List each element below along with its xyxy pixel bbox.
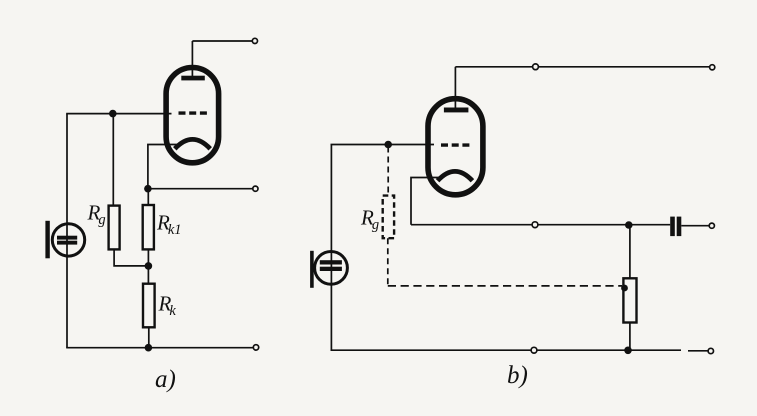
terminal: ring on middle wire (b) bbox=[532, 222, 538, 228]
node: tap dot on resistor left edge (b) bbox=[621, 285, 628, 292]
wire: anode lead vertical (b) bbox=[454, 67, 456, 108]
terminal: ring on bottom rail (b) bbox=[531, 347, 537, 353]
microphone M2 (b) bbox=[310, 251, 347, 288]
resistor R1 potentiometer (b) bbox=[623, 278, 636, 322]
wire: dashed Rg bottom lead (b) bbox=[387, 238, 389, 286]
grid dashed electrode (b) bbox=[441, 143, 470, 146]
cathode arc (b) bbox=[438, 171, 473, 180]
resistor Rg dashed (b) bbox=[383, 196, 394, 239]
wire: vertical from middle wire to potentiometer top (b) bbox=[629, 225, 631, 278]
wire: anode lead vertical (a) bbox=[191, 41, 193, 76]
wire: grid wire horizontal (b) bbox=[331, 144, 435, 146]
wire: middle wire horizontal (b) bbox=[411, 224, 670, 226]
wire: cathode lead from tube to output node (a) bbox=[148, 145, 181, 189]
wire: Rk1 top lead (a) bbox=[147, 189, 149, 205]
wire: cathode lead L-shape down to middle wire (b) bbox=[411, 178, 443, 225]
svg-text:Rg: Rg bbox=[360, 206, 379, 234]
resistor Rk1 (a) bbox=[143, 205, 154, 249]
terminal: output terminal (a) bbox=[253, 186, 258, 191]
capacitor C1 left plate (b) bbox=[670, 217, 675, 237]
wire: capacitor to right terminal (b) bbox=[681, 225, 709, 227]
terminal: anode terminal (a) bbox=[252, 38, 257, 43]
wire: Rg bottom lead L-shape (a) bbox=[114, 249, 148, 266]
svg-text:Rk: Rk bbox=[158, 292, 177, 320]
terminal: bottom right terminal (a) bbox=[253, 345, 258, 350]
svg-text:Rk1: Rk1 bbox=[156, 211, 182, 239]
wire: grid wire horizontal (a) bbox=[66, 113, 171, 115]
terminal: ring on top wire (b) bbox=[533, 64, 539, 70]
resistor Rk (a) bbox=[143, 284, 155, 328]
wire: dashed Rg top lead (b) bbox=[387, 147, 389, 196]
svg-text:Rg: Rg bbox=[87, 201, 106, 229]
node: junction Rg/Rk1/Rk (a) bbox=[145, 262, 153, 270]
node: junction grid/Rg (a) bbox=[109, 110, 117, 118]
resistor Rg (a) bbox=[109, 206, 120, 250]
grid dashed electrode (a) bbox=[179, 111, 208, 114]
wire: dashed horizontal tap wire to potentiometer (b) bbox=[388, 285, 622, 287]
svg-text:b): b) bbox=[507, 362, 528, 389]
node: junction Rk/bottom rail (a) bbox=[145, 344, 153, 352]
node: junction middle wire/potentiometer (b) bbox=[625, 221, 633, 229]
wire: top wire to terminal (b) bbox=[455, 66, 709, 68]
tube V2 envelope (b) bbox=[428, 99, 483, 195]
wire: left vertical through microphone from grid wire to ground rail (b) bbox=[330, 145, 332, 351]
node: junction cathode/Rk1/output (a) bbox=[144, 185, 152, 193]
wire: Rk bottom lead (a) bbox=[148, 327, 150, 347]
wire: short bottom segment before terminal (b) bbox=[688, 350, 708, 352]
wire: bottom rail (a) bbox=[66, 347, 253, 349]
anode plate bar (b) bbox=[444, 108, 469, 113]
wire: output wire to right terminal (a) bbox=[148, 188, 253, 190]
capacitor C1 right plate (b) bbox=[677, 217, 682, 237]
microphone M1 (a) bbox=[45, 221, 84, 258]
wire: top wire to terminal (a) bbox=[192, 40, 252, 42]
terminal: bottom right terminal (b) bbox=[708, 348, 713, 353]
tube V1 envelope (a) bbox=[166, 68, 219, 163]
terminal: top right terminal (b) bbox=[710, 65, 715, 70]
node: junction grid/Rg (b) bbox=[384, 141, 392, 149]
wire: bottom rail (b) bbox=[331, 349, 682, 351]
anode plate bar (a) bbox=[181, 76, 205, 81]
terminal: middle right terminal (b) bbox=[709, 223, 714, 228]
node: junction potentiometer/bottom rail (b) bbox=[624, 347, 632, 355]
wire: Rg top lead (a) bbox=[112, 114, 114, 206]
wire: potentiometer bottom lead (b) bbox=[629, 323, 631, 351]
wire: Rk1 bottom to Rk top (a) bbox=[147, 249, 149, 283]
cathode arc (a) bbox=[175, 139, 210, 148]
svg-text:a): a) bbox=[155, 366, 176, 393]
wire: left vertical through microphone from grid wire to ground rail (a) bbox=[66, 114, 68, 348]
